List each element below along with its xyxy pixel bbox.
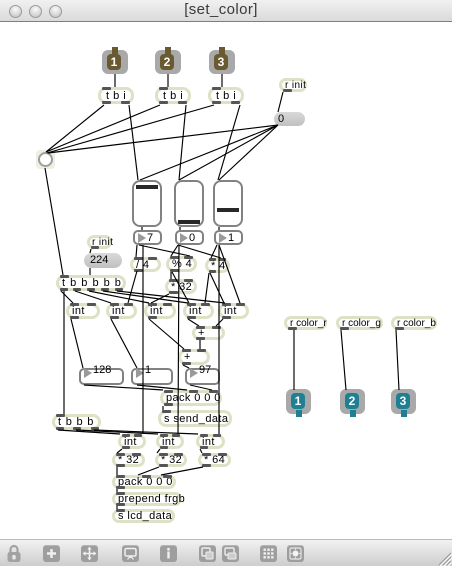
wire int C to * 64 bbox=[200, 449, 202, 453]
wire bang to t b b b b b bbox=[45, 168, 63, 275]
wire int B to * 32 B bbox=[157, 449, 160, 453]
object t b i (3) bbox=[208, 87, 244, 104]
number box 1 bbox=[214, 230, 243, 245]
toolbar presentation button bbox=[122, 545, 139, 562]
wire number 7 to % 4 right inlet bbox=[139, 245, 190, 256]
wire t b b b outlet1 to int A bbox=[58, 430, 120, 434]
object int C bbox=[196, 434, 225, 449]
wire t b b b outlet3 to int C bbox=[94, 430, 198, 434]
wire number 1 to int C right inlet bbox=[218, 245, 220, 434]
toolbar grid button bbox=[260, 545, 277, 562]
number box 7 bbox=[133, 230, 162, 245]
wire pack2 to prepend frgb bbox=[116, 489, 118, 492]
object s send_data bbox=[158, 410, 232, 427]
wire button1 to t b i 1 bbox=[114, 74, 116, 87]
wire number 7 to / 4 bbox=[136, 245, 137, 257]
wire t b i 3 left outlet to bang bbox=[47, 105, 214, 153]
wire % 4 to int4 left inlet bbox=[172, 272, 189, 303]
wire r color_b to teal button 3 bbox=[396, 330, 399, 390]
object + (lower) bbox=[178, 349, 210, 365]
bang button bbox=[36, 150, 55, 169]
wire t b b b b b outlet1 to int1 bbox=[61, 291, 73, 303]
number box 128 bbox=[79, 368, 124, 385]
wire * 32 A to pack2 inlet1 bbox=[116, 467, 118, 475]
wire pack to s send_data bbox=[162, 406, 164, 410]
wire t b i 3 right outlet to slider3 bbox=[218, 105, 240, 180]
wire int5 to + (upper) right bbox=[216, 319, 223, 326]
message button 1 (brown) bbox=[102, 50, 128, 74]
wire number 0 to int B right inlet bbox=[178, 245, 179, 434]
wire + (lower) to number 97 bbox=[183, 365, 189, 368]
traffic light close bbox=[9, 5, 22, 18]
wire t b b b b b outlet1 to t b b b bbox=[63, 291, 65, 414]
wire r init to message 0 bbox=[278, 92, 283, 112]
wire t b i 1 left outlet to bang bbox=[46, 105, 104, 152]
wire r color_r to teal button 1 bbox=[293, 330, 295, 390]
wire * 4 to int5 left inlet bbox=[210, 273, 224, 303]
wire / 4 to int2 right inlet bbox=[128, 271, 137, 303]
wire prepend frgb to s lcd_data bbox=[116, 506, 118, 509]
object t b i (1) bbox=[98, 87, 134, 104]
title bar bbox=[0, 0, 452, 22]
wire number 7 to int A right inlet bbox=[142, 245, 144, 434]
message button 2 (brown) bbox=[155, 50, 181, 74]
object r color_g bbox=[336, 316, 383, 330]
object int B bbox=[156, 434, 184, 449]
wire * 32 B to pack2 inlet2 bbox=[138, 467, 159, 475]
toolbar info button bbox=[160, 545, 177, 562]
traffic light zoom bbox=[49, 5, 62, 18]
number box 0 bbox=[175, 230, 204, 245]
traffic light minimize bbox=[29, 5, 42, 18]
object int 4 bbox=[183, 303, 214, 319]
wire * 32 to int3 left inlet bbox=[151, 294, 169, 303]
object int 5 bbox=[218, 303, 249, 319]
toolbar options button bbox=[287, 545, 304, 562]
wire * 4 to int4 right inlet bbox=[205, 273, 209, 303]
toolbar patcher windows button bbox=[199, 545, 216, 562]
bottom toolbar bbox=[0, 539, 452, 566]
wire t b i 1 right outlet to slider1 bbox=[129, 105, 138, 180]
message button 1 (teal) bbox=[286, 389, 311, 414]
wire int1 to number 128 bbox=[71, 319, 83, 368]
wire number 1 to * 4 left inlet bbox=[211, 245, 217, 258]
wire t b b b b b outlet4 to int4 bbox=[103, 291, 188, 303]
wire number 0 to % 4 left inlet bbox=[171, 245, 178, 256]
object r init (left) bbox=[87, 235, 112, 249]
wire t b b b outlet2 to int B bbox=[76, 430, 158, 434]
wire number 128 to pack inlet1 bbox=[84, 385, 163, 390]
object int A bbox=[118, 434, 146, 449]
wire number 1 to pack inlet2 bbox=[137, 385, 187, 390]
object % 4 bbox=[166, 256, 197, 272]
object pack 0 0 0 (lower) bbox=[112, 475, 176, 489]
message button 3 (teal) bbox=[391, 389, 416, 414]
wire int3 to + (lower) bbox=[149, 319, 184, 349]
wire r color_g to teal button 2 bbox=[341, 330, 346, 390]
resize grip bbox=[436, 549, 452, 566]
wire int2 to number 1 (lower) bbox=[111, 319, 137, 368]
wire message 0 to slider2 bbox=[179, 125, 278, 180]
window title bbox=[0, 1, 447, 18]
wire slider3 to number 1 bbox=[218, 227, 220, 230]
message button 2 (teal) bbox=[340, 389, 365, 414]
wire slider1 to number 7 bbox=[141, 227, 143, 230]
toolbar new view button bbox=[222, 545, 239, 562]
object int 1 bbox=[66, 303, 100, 319]
wire button2 to t b i 2 bbox=[167, 74, 169, 87]
object r color_b bbox=[391, 316, 437, 330]
wire t b i 2 left outlet to bang bbox=[46, 105, 160, 152]
object * 4 bbox=[205, 258, 230, 273]
wire int4 to + (upper) left bbox=[188, 319, 199, 326]
object * 32 (B) bbox=[155, 453, 187, 467]
wire number 0 to * 4 right inlet bbox=[178, 245, 221, 258]
number box 97 bbox=[185, 368, 220, 385]
message box 0 bbox=[274, 112, 305, 126]
object s lcd_data bbox=[112, 509, 175, 523]
wire message 0 to slider1 bbox=[140, 125, 278, 180]
object * 32 (mid) bbox=[165, 279, 197, 294]
object prepend frgb bbox=[112, 492, 182, 506]
object t b b b bbox=[52, 414, 101, 430]
wire * 64 to pack2 inlet3 bbox=[161, 467, 203, 475]
slider 2 bbox=[174, 180, 204, 227]
number box 1 (lower) bbox=[131, 368, 173, 385]
wire r init to message 224 bbox=[90, 249, 91, 253]
message box 224 bbox=[84, 253, 122, 268]
toolbar move button bbox=[81, 545, 98, 562]
wire number 97 to pack inlet3 bbox=[190, 385, 212, 390]
wire t b i 2 right outlet to slider2 bbox=[179, 105, 186, 180]
object int 3 bbox=[144, 303, 176, 319]
wire t b b b b b outlet2 to int2 bbox=[75, 291, 111, 303]
object r init (top right) bbox=[279, 78, 307, 92]
wire + (upper) to + (lower) bbox=[199, 340, 201, 349]
message button 3 (brown) bbox=[209, 50, 235, 74]
object t b i (2) bbox=[155, 87, 191, 104]
wire button3 to t b i 3 bbox=[221, 74, 223, 87]
slider 3 bbox=[213, 180, 243, 227]
wire message 224 to t b b b b b bbox=[89, 268, 91, 275]
object / 4 bbox=[130, 257, 161, 272]
object * 64 bbox=[198, 453, 231, 467]
object + (upper) bbox=[192, 326, 225, 340]
object int 2 bbox=[106, 303, 137, 319]
object r color_r bbox=[284, 316, 327, 330]
slider 1 bbox=[132, 180, 162, 227]
wire message 0 to bang bbox=[48, 125, 278, 153]
wire message 0 to slider3 bbox=[219, 125, 278, 180]
wire number 1 to int5 right inlet bbox=[219, 245, 240, 303]
toolbar lock icon bbox=[6, 544, 22, 563]
wire slider2 to number 0 bbox=[179, 227, 181, 230]
wire % 4 to * 32 bbox=[170, 272, 172, 279]
wire t b b b b b outlet3 to int3 bbox=[89, 291, 149, 303]
wire int A to * 32 A bbox=[117, 449, 122, 453]
wire t b b b b b outlet5 to int5 bbox=[117, 291, 225, 303]
object pack 0 0 0 (upper) bbox=[160, 390, 222, 406]
toolbar plus button bbox=[43, 545, 60, 562]
object t b b b b b bbox=[56, 275, 126, 291]
object * 32 (A) bbox=[112, 453, 145, 467]
